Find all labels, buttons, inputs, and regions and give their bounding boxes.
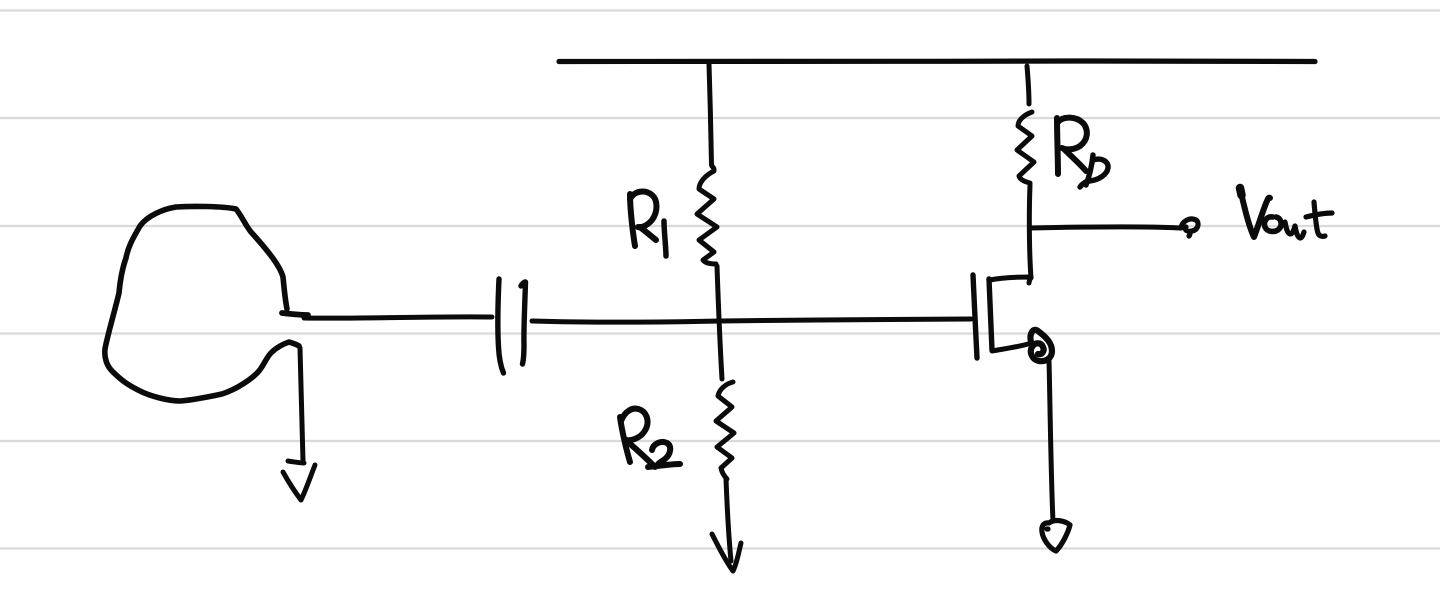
wire RD top (rail to RD) <box>1027 66 1029 104</box>
resistor RD <box>1017 112 1034 183</box>
ground arrow source <box>1042 521 1070 551</box>
wire RD bottom / drain vertical <box>1029 185 1031 278</box>
transistor M1 gate bar <box>973 275 977 358</box>
wire capacitor to gate <box>532 319 971 322</box>
label R1 <box>630 194 635 246</box>
wire VDD top rail <box>559 58 1315 64</box>
ground arrow source blob <box>288 461 304 463</box>
source arrow scribble <box>1030 330 1052 361</box>
capacitor C1 left plate <box>498 279 504 373</box>
wire R1 top (rail to R1) <box>709 64 714 170</box>
wire blob to capacitor <box>282 313 308 315</box>
capacitor C1 right plate <box>521 282 526 364</box>
ground arrow R2 <box>712 534 741 571</box>
wire R2 bottom (arrow shaft) <box>726 479 731 561</box>
resistor R1 <box>697 171 717 264</box>
transistor M1 channel bar <box>989 279 992 350</box>
node Vout terminal loop <box>1181 219 1198 236</box>
wire source to ground <box>1049 360 1053 521</box>
label RD <box>1057 118 1058 174</box>
label R2 <box>620 417 630 462</box>
wire drain stub <box>990 277 1031 283</box>
wire R1 bottom to node A <box>717 266 722 379</box>
resistor R2 <box>716 382 734 479</box>
wire blob to ground arrow <box>300 348 303 461</box>
wire Vout <box>1030 227 1180 228</box>
wire source stub <box>992 344 1028 351</box>
source blob <box>105 206 299 401</box>
label Vout <box>1240 188 1242 195</box>
